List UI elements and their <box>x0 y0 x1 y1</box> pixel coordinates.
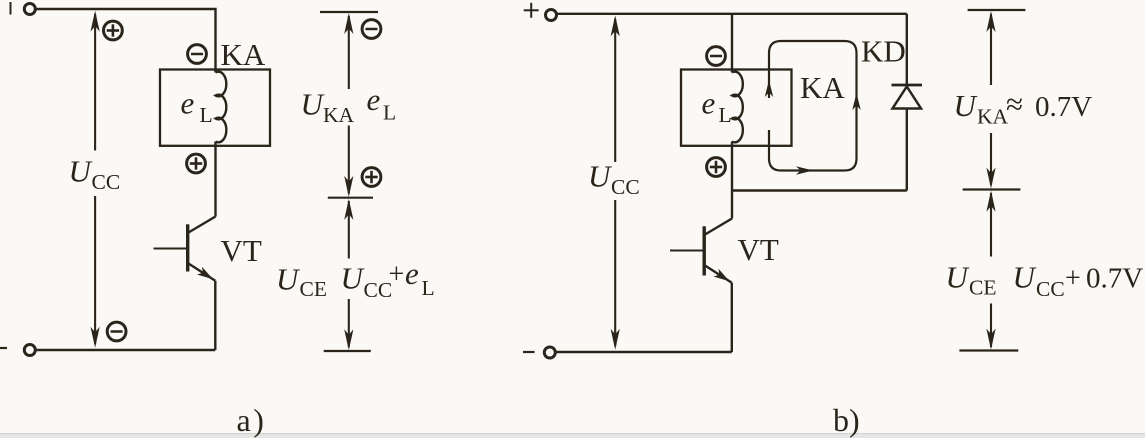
wire Ucc b shaft upper <box>614 19 616 162</box>
svg-text:VT: VT <box>738 232 779 267</box>
arrow Uce down head <box>344 329 353 350</box>
svg-text:U: U <box>1013 260 1038 295</box>
minus polarity mark b <box>523 351 535 353</box>
arrow Ucc a (down head) <box>91 327 100 348</box>
arrow Uce b shaft lower <box>990 304 992 348</box>
minus circled <box>362 20 381 39</box>
tick line top <box>320 11 378 13</box>
svg-text:+: + <box>389 259 405 290</box>
arrow Uka b shaft upper <box>990 14 992 85</box>
node + symbol below coil b <box>707 158 726 177</box>
tick line bottom <box>324 350 371 352</box>
svg-text:CC: CC <box>1036 277 1065 301</box>
minus polarity mark (cut at left edge) <box>0 347 7 349</box>
svg-text:KA: KA <box>977 105 1009 129</box>
svg-text:CC: CC <box>92 170 121 194</box>
transistor VT a <box>154 217 216 351</box>
relay coil box KA b <box>681 70 792 146</box>
node - symbol bottom a <box>107 322 126 341</box>
diode KD <box>892 14 923 191</box>
terminal (top, +) b <box>546 10 557 21</box>
freewheel current loop <box>769 41 857 171</box>
arrow Ucc b down head <box>611 329 620 350</box>
wire Ucc measure upper <box>94 14 96 151</box>
svg-text:U: U <box>946 260 971 295</box>
svg-text:U: U <box>301 87 326 122</box>
svg-text:KA: KA <box>323 103 355 127</box>
arrow Uka down head <box>344 176 353 197</box>
terminal (bottom, -) b <box>544 347 555 358</box>
arrow Uce shaft lower <box>348 299 350 347</box>
arrow Uce up head <box>344 199 353 220</box>
svg-text:L: L <box>422 276 435 300</box>
transistor VT b <box>670 219 732 353</box>
arrow Uce b shaft upper <box>990 193 992 257</box>
loop arrow bottom (right) <box>796 166 813 174</box>
tick line middle b <box>963 188 1021 190</box>
svg-text:b): b) <box>833 402 860 438</box>
svg-text:CC: CC <box>611 175 640 199</box>
inductor coil a <box>216 72 227 143</box>
svg-text:VT: VT <box>221 233 262 268</box>
tick line top b <box>968 9 1026 11</box>
svg-text:0.7V: 0.7V <box>1035 91 1092 123</box>
arrow Uka b shaft lower <box>990 133 992 185</box>
wire coil bottom to diode bottom <box>732 189 907 191</box>
terminal (top, +) <box>24 4 35 15</box>
node + symbol below coil a <box>187 154 206 173</box>
wire coil branch b <box>731 14 733 73</box>
svg-text:e: e <box>367 82 381 117</box>
plus polarity mark b <box>524 3 539 18</box>
svg-text:U: U <box>954 88 979 123</box>
wire bottom rail a <box>36 349 216 351</box>
arrow Ucc a (up head) <box>91 11 100 32</box>
wire bottom rail b <box>556 351 732 353</box>
loop arrow right (up) <box>852 93 860 110</box>
tick line bottom b <box>959 349 1018 351</box>
svg-text:≈: ≈ <box>1006 87 1023 122</box>
svg-text:L: L <box>200 103 213 127</box>
arrow Uka b down head <box>986 168 995 189</box>
wire coil bottom to collector b <box>731 142 733 219</box>
arrow Uce b down head <box>986 329 995 350</box>
arrow Uka shaft upper <box>348 16 350 89</box>
plus circled <box>362 168 381 187</box>
wire coil bottom to collector a <box>214 142 216 217</box>
svg-text:U: U <box>588 159 613 194</box>
arrow Uce shaft upper <box>348 201 350 259</box>
svg-text:e: e <box>702 86 716 121</box>
wire Ucc b shaft lower <box>614 200 616 346</box>
svg-text:0.7V: 0.7V <box>1086 263 1143 295</box>
wire Ucc measure lower <box>94 196 96 344</box>
arrow Uka shaft lower <box>348 126 350 194</box>
svg-text:U: U <box>341 261 366 296</box>
svg-text:a): a) <box>237 402 267 438</box>
svg-text:e: e <box>405 256 419 291</box>
svg-text:CE: CE <box>300 277 327 301</box>
node - symbol coil top b <box>707 47 726 66</box>
arrow Uka up head <box>344 13 353 34</box>
svg-text:KA: KA <box>800 70 845 105</box>
inductor coil b <box>732 72 743 143</box>
loop arrow left (up) <box>765 80 773 97</box>
plus polarity mark (cut at left edge) <box>10 2 12 15</box>
svg-text:CE: CE <box>969 276 996 300</box>
arrow Uce b up head <box>986 191 995 212</box>
svg-text:U: U <box>276 262 301 297</box>
bottom gray strip <box>0 433 1145 434</box>
arrow Ucc b up head <box>611 15 620 36</box>
svg-text:U: U <box>69 154 94 189</box>
svg-text:+: + <box>1065 263 1081 294</box>
node + symbol top a <box>104 21 123 40</box>
svg-text:e: e <box>181 86 195 121</box>
svg-text:L: L <box>383 101 396 125</box>
svg-text:L: L <box>719 103 732 127</box>
svg-text:KD: KD <box>861 34 906 69</box>
wire top rail b <box>557 13 907 15</box>
relay coil box KA a <box>160 70 270 146</box>
svg-text:KA: KA <box>221 37 266 72</box>
tick line middle <box>328 197 373 199</box>
terminal (bottom, -) <box>24 345 35 356</box>
arrow Uka b up head <box>986 11 995 32</box>
node - symbol coil top a <box>188 45 207 64</box>
wire top rail a <box>36 9 216 73</box>
